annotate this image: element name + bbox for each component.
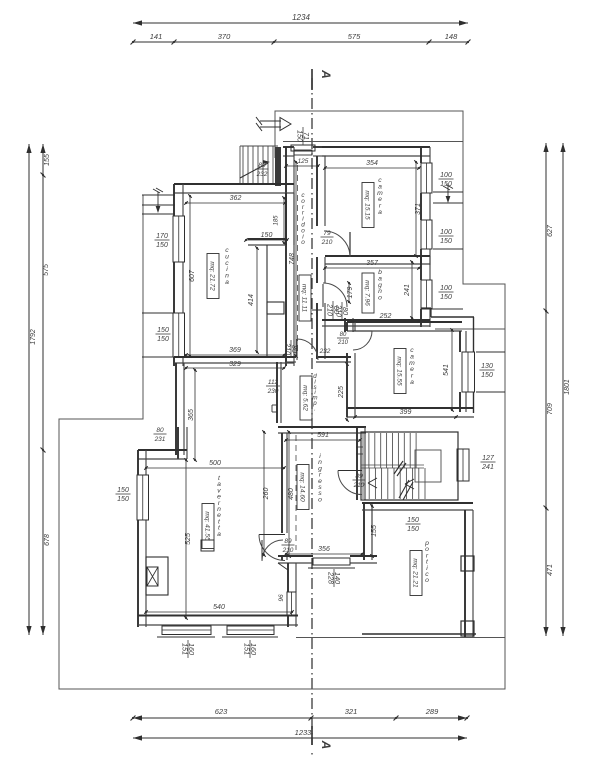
svg-text:89: 89: [284, 538, 292, 545]
svg-text:150: 150: [407, 526, 419, 533]
svg-text:o: o: [301, 239, 305, 246]
svg-text:471: 471: [547, 564, 554, 576]
svg-text:mq: 21.21: mq: 21.21: [412, 558, 419, 588]
svg-text:225: 225: [338, 386, 345, 399]
svg-text:329: 329: [229, 361, 241, 368]
svg-text:mq: 11.11: mq: 11.11: [301, 284, 308, 313]
svg-text:mq: 14.60: mq: 14.60: [299, 472, 306, 502]
svg-text:354: 354: [366, 160, 378, 167]
svg-text:1233: 1233: [295, 728, 313, 737]
svg-text:230: 230: [267, 388, 279, 395]
svg-text:362: 362: [230, 195, 242, 202]
svg-text:150: 150: [440, 181, 452, 188]
svg-text:591: 591: [317, 432, 329, 439]
svg-text:mq: 21.72: mq: 21.72: [209, 261, 216, 291]
svg-text:365: 365: [188, 409, 195, 421]
svg-text:541: 541: [443, 364, 450, 376]
svg-text:399: 399: [400, 409, 412, 416]
svg-text:mq: 5.62: mq: 5.62: [302, 385, 309, 411]
svg-text:o: o: [318, 496, 322, 503]
svg-text:414: 414: [248, 294, 255, 306]
svg-text:80: 80: [340, 332, 347, 338]
svg-text:369: 369: [229, 347, 241, 354]
svg-text:170: 170: [156, 233, 168, 240]
svg-text:155: 155: [44, 154, 51, 166]
svg-text:575: 575: [43, 264, 50, 276]
svg-text:371: 371: [415, 203, 422, 215]
svg-text:623: 623: [215, 707, 228, 716]
svg-text:A: A: [319, 69, 333, 79]
svg-text:a: a: [378, 209, 382, 216]
svg-text:A: A: [319, 740, 333, 750]
svg-text:607: 607: [189, 269, 196, 282]
svg-text:210: 210: [326, 303, 335, 316]
svg-text:150: 150: [296, 130, 305, 142]
svg-text:480: 480: [288, 488, 295, 500]
svg-text:748: 748: [289, 253, 296, 265]
svg-text:260: 260: [263, 488, 270, 501]
svg-text:150: 150: [440, 294, 452, 301]
svg-text:150: 150: [117, 487, 129, 494]
svg-text:150: 150: [156, 242, 168, 249]
svg-text:151: 151: [181, 643, 190, 655]
svg-text:mq: 41.55: mq: 41.55: [204, 511, 211, 541]
svg-text:500: 500: [209, 460, 221, 467]
svg-text:96: 96: [278, 594, 285, 602]
svg-text:100: 100: [440, 172, 452, 179]
svg-text:125: 125: [298, 158, 309, 165]
svg-text:89: 89: [355, 473, 363, 480]
svg-text:150: 150: [407, 517, 419, 524]
svg-text:210: 210: [353, 482, 365, 489]
svg-text:150: 150: [157, 327, 169, 334]
svg-text:321: 321: [345, 707, 358, 716]
svg-text:79: 79: [323, 230, 331, 237]
svg-text:150: 150: [157, 336, 169, 343]
svg-text:a: a: [217, 531, 221, 538]
svg-text:148: 148: [445, 32, 458, 41]
svg-text:150: 150: [261, 232, 273, 239]
svg-text:1234: 1234: [292, 13, 310, 22]
svg-text:150: 150: [440, 238, 452, 245]
svg-text:155: 155: [371, 525, 378, 537]
svg-text:540: 540: [213, 604, 225, 611]
svg-text:127: 127: [482, 455, 495, 462]
svg-text:1801: 1801: [564, 379, 571, 395]
svg-text:100: 100: [440, 285, 452, 292]
svg-text:231: 231: [154, 436, 166, 443]
svg-text:o: o: [425, 577, 429, 584]
svg-text:709: 709: [547, 403, 554, 415]
svg-text:241: 241: [481, 464, 494, 471]
svg-text:525: 525: [185, 533, 192, 545]
svg-text:141: 141: [150, 32, 163, 41]
svg-text:mq: 15.15: mq: 15.15: [364, 190, 371, 220]
svg-text:289: 289: [425, 707, 439, 716]
svg-text:1792: 1792: [30, 329, 37, 345]
svg-text:210: 210: [284, 342, 293, 355]
svg-text:575: 575: [348, 32, 361, 41]
svg-text:241: 241: [404, 284, 411, 297]
svg-text:228: 228: [327, 571, 336, 584]
svg-text:80: 80: [156, 427, 164, 434]
svg-text:356: 356: [318, 546, 330, 553]
svg-text:232: 232: [319, 348, 331, 355]
svg-text:a: a: [225, 279, 229, 286]
svg-text:150: 150: [117, 496, 129, 503]
svg-text:357: 357: [366, 260, 379, 267]
svg-text:151: 151: [243, 643, 252, 655]
svg-text:80: 80: [258, 162, 266, 169]
svg-text:678: 678: [44, 534, 51, 546]
svg-text:210: 210: [337, 340, 349, 346]
svg-text:185: 185: [274, 215, 280, 226]
svg-text:o: o: [378, 295, 382, 302]
svg-text:100: 100: [440, 229, 452, 236]
svg-text:a: a: [410, 379, 414, 386]
svg-text:.: .: [314, 405, 316, 412]
svg-text:mq: 7.96: mq: 7.96: [364, 280, 371, 306]
svg-text:252: 252: [379, 313, 392, 320]
svg-text:370: 370: [218, 32, 231, 41]
svg-text:210: 210: [321, 239, 333, 246]
svg-text:mq: 15.55: mq: 15.55: [396, 356, 403, 386]
svg-text:150: 150: [481, 372, 493, 379]
svg-text:179: 179: [347, 287, 354, 299]
svg-text:627: 627: [547, 224, 554, 237]
svg-text:232: 232: [256, 171, 268, 178]
svg-text:130: 130: [481, 363, 493, 370]
svg-text:112: 112: [268, 379, 279, 386]
